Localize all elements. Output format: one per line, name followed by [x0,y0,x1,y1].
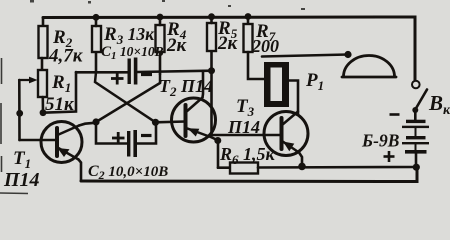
wire R1 bottom [41,97,44,113]
node T3 emitter [298,163,306,171]
resistor R6 [230,163,258,174]
node wiper junction [16,110,23,117]
node R5 bottom [208,67,215,74]
wire R3 bottom lead [95,52,98,72]
wire R5 top stub [210,17,213,23]
wire R5 node to T3 base [212,71,282,135]
battery minus sign [390,113,400,116]
earphone capsule [344,56,395,77]
svg-text:П14: П14 [3,169,40,191]
wire R6 left lead [218,166,230,169]
svg-text:4,7к: 4,7к [48,46,84,67]
wire T1 base [20,139,58,142]
svg-text:П14: П14 [227,117,260,137]
transistor T3 [264,112,308,156]
wire R5 bottom lead [210,51,213,71]
svg-text:T2 П14: T2 П14 [159,76,213,99]
wire R7 top stub [247,17,250,25]
resistor R1 (rheostat) [38,70,47,97]
wire R2 top stub [42,18,45,28]
R1 wiper arrow [19,79,33,81]
wire R4 top stub [159,17,162,25]
resistor R7 [244,24,253,52]
capacitor C1 [128,59,131,85]
node earphone terminal [344,51,351,58]
resistor R4 [156,25,165,52]
C1 minus sign [141,73,152,76]
wire diagonal R4 to X left [96,74,160,122]
node T2 emitter [214,137,221,144]
wire C2 right up to X right [137,122,156,143]
resistor R3 [92,26,101,52]
wire C1 right to R5 node [137,71,211,72]
wire relay top to earphone [262,55,348,57]
wire T1 emitter down [79,160,82,182]
wire diagonal node A to X right [95,72,156,122]
node R1 bottom junction [40,109,47,116]
resistor R5 [207,23,216,51]
C2 minus sign [141,134,152,137]
svg-text:R6 1,5к: R6 1,5к [219,144,276,167]
edge scan marks [0,58,28,194]
node R4 top [157,14,164,21]
svg-text:Б-9В: Б-9В [361,131,400,151]
wire T3 emitter down [299,153,302,167]
wire R6 right to battery [258,166,416,169]
wire relay right to T3 collector [288,81,299,115]
node X left [92,118,99,125]
battery plus sign [384,151,395,162]
capacitor C2 [127,131,130,157]
wire bottom rail [81,167,417,182]
wire T2 emitter down [212,138,218,168]
wire T2 collector up [201,71,204,98]
battery B-9V [406,120,426,123]
wire R7 bottom to relay [248,52,264,79]
C1 plus sign [111,73,124,85]
wire R2-R1 [41,58,44,70]
node R7 top [245,13,252,20]
node battery bottom [413,164,420,171]
wire T2 base [156,120,186,123]
wire R3 top stub [95,17,98,26]
svg-text:200: 200 [251,36,279,56]
svg-text:51к: 51к [45,94,75,115]
transistor T1 [41,122,82,163]
node R5 top [208,13,215,20]
node R3 top [93,14,100,21]
scan specks [30,0,305,10]
wire wiper down [18,80,21,140]
transistor T2 [172,98,216,142]
C2 plus sign [112,132,125,144]
wire top rail [43,17,415,80]
wire base node A horizontal [43,72,76,113]
switch Vk [412,81,420,89]
node X right [152,119,159,126]
svg-text:2к: 2к [217,33,239,54]
wire T1 collector to X node [79,123,96,126]
wire node A to C1 left [76,71,128,74]
relay P1 coil [264,62,289,107]
resistor R2 [39,26,48,58]
wire R4 bottom lead [159,52,162,74]
svg-text:2к: 2к [166,35,188,56]
wire X left down to C2 [96,122,127,144]
